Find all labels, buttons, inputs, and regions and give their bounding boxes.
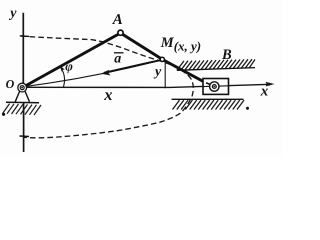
svg-text:y: y (153, 65, 162, 80)
svg-text:O: O (6, 77, 15, 91)
svg-text:x: x (260, 83, 269, 99)
connecting rod A-M-B (121, 33, 210, 85)
svg-text:a: a (114, 52, 121, 67)
crank OA (23, 33, 121, 88)
vector a (arrow along OM toward O) (104, 60, 160, 73)
ground hatching at O (3, 104, 42, 115)
dot left of ground hatching (2, 113, 5, 116)
x-axis segment through slider (203, 85, 229, 88)
dot right of lower guide (246, 107, 249, 110)
svg-text:y: y (8, 6, 17, 21)
slider pin outer (210, 82, 219, 91)
y-axis (22, 13, 24, 152)
ground line at O (6, 101, 39, 104)
x-axis (23, 84, 272, 87)
ordinate line y of M (164, 62, 166, 89)
slider pin inner (212, 85, 216, 89)
svg-text:B: B (221, 47, 232, 63)
pivot O outer (18, 83, 27, 92)
pivot O center dot (21, 87, 23, 89)
svg-text:A: A (112, 12, 123, 28)
pivot O inner (20, 86, 24, 90)
rod tip to pin (206, 83, 211, 85)
lower guide surface line (172, 98, 244, 100)
thin line O to M (direction of vector a) (23, 60, 160, 87)
dashed trajectory of M (21, 36, 193, 138)
trajectory tick on -y axis (20, 135, 30, 138)
slider block B (203, 79, 229, 95)
svg-text:x: x (103, 85, 112, 104)
upper guide surface line (177, 68, 255, 71)
phi arc arrowhead (60, 65, 65, 71)
point M (160, 57, 164, 61)
angle arc phi (61, 68, 65, 87)
upper guide hatching (177, 59, 255, 70)
x-axis arrowhead (266, 82, 275, 87)
svg-text:M(x, y): M(x, y) (160, 35, 201, 53)
slider pin center dot (214, 86, 216, 88)
joint A (118, 30, 123, 35)
support triangle at O (15, 92, 29, 102)
trajectory tick on +y axis (20, 35, 29, 38)
lower guide hatching (173, 100, 245, 109)
